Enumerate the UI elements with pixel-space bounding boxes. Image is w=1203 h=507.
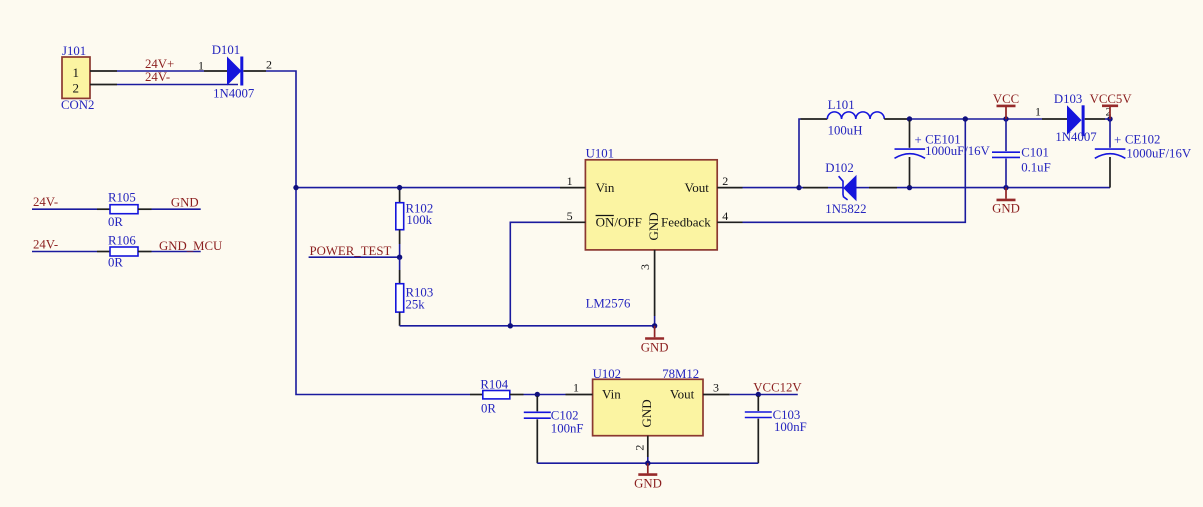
- wire VCC rail top: [907, 118, 1110, 120]
- svg-text:D101: D101: [212, 43, 240, 57]
- svg-text:D103: D103: [1054, 92, 1082, 106]
- ground bottom: [634, 463, 662, 490]
- svg-text:Vin: Vin: [602, 387, 621, 402]
- svg-text:1000uF/16V: 1000uF/16V: [1126, 147, 1191, 161]
- svg-text:100nF: 100nF: [551, 422, 584, 436]
- capacitor CE102: [1095, 119, 1192, 188]
- svg-text:C102: C102: [551, 408, 579, 422]
- diode D101: [198, 43, 272, 101]
- pin 3 U102: [703, 380, 730, 394]
- capacitor C103: [745, 396, 807, 463]
- resistor R106: [32, 234, 222, 270]
- wire D101 out to main vertical: [266, 71, 470, 395]
- svg-text:24V-: 24V-: [33, 238, 58, 252]
- svg-text:100k: 100k: [406, 213, 432, 227]
- diode D102: [799, 161, 897, 216]
- node gnd U101: [652, 323, 657, 328]
- capacitor C101: [992, 119, 1051, 188]
- ground under C101: [992, 188, 1020, 216]
- wire main horizontal to U101 Vin: [296, 187, 560, 189]
- svg-text:1: 1: [73, 65, 80, 80]
- svg-text:100uH: 100uH: [828, 124, 863, 138]
- node L101 out: [907, 116, 912, 121]
- svg-text:VCC12V: VCC12V: [753, 381, 802, 395]
- svg-text:GND: GND: [634, 477, 662, 491]
- resistor R104: [470, 377, 566, 415]
- svg-text:VCC: VCC: [993, 92, 1019, 106]
- svg-text:0R: 0R: [108, 256, 123, 270]
- svg-text:0R: 0R: [108, 215, 123, 229]
- node VCC: [1003, 116, 1008, 121]
- node gnd C101: [1003, 185, 1008, 190]
- svg-text:1N4007: 1N4007: [213, 87, 255, 101]
- svg-text:R104: R104: [480, 377, 508, 391]
- svg-text:4: 4: [722, 209, 728, 223]
- svg-text:1000uF/16V: 1000uF/16V: [925, 144, 990, 158]
- svg-text:100nF: 100nF: [774, 420, 807, 434]
- svg-text:3: 3: [638, 264, 652, 270]
- svg-text:+: +: [915, 133, 922, 147]
- node divider: [397, 255, 402, 260]
- svg-text:2: 2: [73, 81, 80, 96]
- pin 4 U101: [717, 209, 742, 223]
- svg-text:U102: U102: [593, 367, 621, 381]
- wire 24V+ net: [117, 57, 204, 71]
- svg-text:Vout: Vout: [670, 387, 695, 402]
- svg-text:1: 1: [573, 380, 579, 394]
- svg-text:GND: GND: [171, 196, 199, 210]
- node VCC5V: [1107, 116, 1112, 121]
- power VCC5V: [1090, 92, 1133, 119]
- wire 24V- net: [117, 70, 238, 85]
- wire feedback: [743, 119, 966, 222]
- svg-text:Feedback: Feedback: [661, 215, 711, 230]
- svg-text:GND_MCU: GND_MCU: [159, 239, 222, 253]
- svg-text:CE102: CE102: [1125, 133, 1161, 147]
- regulator U102: [593, 367, 703, 436]
- node R102 top: [397, 185, 402, 190]
- svg-text:3: 3: [713, 380, 719, 394]
- node switch: [796, 185, 801, 190]
- net POWER_TEST: [309, 244, 400, 258]
- svg-text:0.1uF: 0.1uF: [1021, 161, 1051, 175]
- svg-text:+: +: [1114, 133, 1121, 147]
- svg-text:L101: L101: [828, 98, 855, 112]
- svg-text:GND: GND: [992, 202, 1020, 216]
- op-amp U101: [585, 146, 717, 310]
- node C102: [535, 392, 540, 397]
- svg-text:GND: GND: [641, 341, 669, 355]
- connector J101: [61, 44, 117, 112]
- svg-text:Vout: Vout: [685, 180, 710, 195]
- svg-text:0R: 0R: [481, 402, 496, 416]
- svg-text:R105: R105: [108, 190, 136, 204]
- svg-text:5: 5: [567, 209, 573, 223]
- svg-text:CON2: CON2: [61, 98, 94, 112]
- svg-text:24V+: 24V+: [145, 57, 174, 71]
- svg-text:78M12: 78M12: [662, 367, 699, 381]
- node C103: [756, 392, 761, 397]
- svg-text:GND: GND: [639, 399, 654, 427]
- svg-text:1: 1: [567, 174, 573, 188]
- svg-text:2: 2: [722, 174, 728, 188]
- pin 1 U101: [560, 174, 585, 188]
- wire gnd rail: [897, 187, 1110, 189]
- svg-text:2: 2: [632, 445, 646, 451]
- svg-text:R106: R106: [108, 234, 136, 248]
- svg-text:24V-: 24V-: [33, 195, 58, 209]
- svg-text:1: 1: [1035, 105, 1041, 119]
- svg-text:LM2576: LM2576: [586, 297, 631, 311]
- svg-text:25k: 25k: [406, 298, 426, 312]
- svg-text:24V-: 24V-: [145, 70, 170, 84]
- ground under U101: [641, 326, 669, 355]
- svg-text:VCC5V: VCC5V: [1090, 92, 1133, 106]
- resistor R102: [396, 188, 433, 258]
- inductor L101: [801, 98, 908, 138]
- svg-text:2: 2: [266, 58, 272, 72]
- svg-text:GND: GND: [646, 212, 661, 240]
- wire ON/OFF: [510, 222, 560, 325]
- svg-text:J101: J101: [62, 44, 86, 58]
- resistor R105: [32, 190, 201, 229]
- svg-text:ON/OFF: ON/OFF: [596, 215, 642, 230]
- wire gnd bottom: [537, 462, 758, 464]
- wire Vout12: [730, 381, 803, 395]
- pin 1 U102: [566, 380, 593, 394]
- svg-text:1: 1: [198, 59, 204, 73]
- node junction main: [293, 185, 298, 190]
- wire bottom of divider to U101 gnd: [400, 325, 655, 327]
- svg-text:1N5822: 1N5822: [825, 202, 866, 216]
- svg-text:Vin: Vin: [596, 180, 615, 195]
- pin 2 U101: [717, 174, 742, 188]
- pin 2 U102: [632, 436, 648, 464]
- svg-text:POWER_TEST: POWER_TEST: [310, 244, 392, 258]
- svg-text:U101: U101: [586, 146, 614, 160]
- capacitor CE101: [895, 120, 991, 186]
- node on-off: [508, 323, 513, 328]
- power VCC: [993, 92, 1019, 119]
- svg-text:1N4007: 1N4007: [1055, 130, 1097, 144]
- svg-text:D102: D102: [825, 161, 853, 175]
- capacitor C102: [524, 396, 584, 463]
- node CE101 bottom: [907, 185, 912, 190]
- resistor R103: [396, 257, 433, 326]
- pin 5 U101: [560, 209, 585, 223]
- wire Vout to switch node: [743, 119, 801, 188]
- pin 3 U101: [638, 250, 655, 326]
- node feedback tap: [963, 116, 968, 121]
- node gnd bottom: [645, 461, 650, 466]
- svg-text:C101: C101: [1021, 145, 1049, 159]
- diode D103: [1035, 92, 1112, 144]
